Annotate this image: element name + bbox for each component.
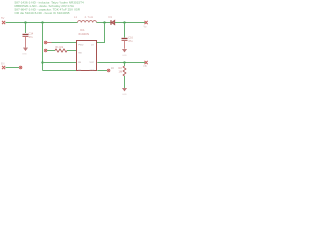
wire row 43: [47, 42, 51, 44]
wire to R1: [47, 50, 55, 52]
wire EN stub left: [6, 67, 20, 69]
resistor R2: [123, 66, 126, 76]
svg-text:47u: 47u: [128, 40, 133, 43]
capacitor C14: [23, 35, 29, 37]
svg-text:GND: GND: [122, 55, 127, 57]
diode D1: [111, 20, 115, 25]
wire SW down: [97, 23, 105, 43]
pin flag P3: [107, 69, 110, 72]
wire VCC drop to IC rows: [42, 23, 44, 71]
net flag EN left: [2, 66, 5, 69]
pin names right col: [90, 44, 95, 72]
svg-text:EN: EN: [111, 68, 115, 70]
svg-text:OR die 51040-5-ND - boost IC 6: OR die 51040-5-ND - boost IC 61040N5: [15, 11, 70, 15]
wire EN stub right: [97, 70, 107, 72]
wire row 70 left: [43, 70, 77, 72]
svg-text:R2: R2: [119, 66, 123, 70]
pin flag P4: [19, 66, 22, 69]
net flag FB: [145, 61, 148, 64]
op IC1 box: [77, 41, 97, 71]
ground G1: [24, 48, 28, 50]
svg-text:GND: GND: [22, 54, 27, 56]
wire coil to diode: [97, 22, 111, 24]
net flag VOUT: [145, 21, 148, 24]
svg-text:FB: FB: [144, 65, 147, 68]
svg-text:47u: 47u: [29, 36, 34, 39]
wire R1 to IC: [67, 50, 76, 52]
svg-text:R1 10k: R1 10k: [56, 46, 64, 49]
inductor L1: [78, 21, 97, 23]
svg-text:1M: 1M: [119, 69, 123, 73]
svg-text:D1: D1: [109, 15, 113, 19]
junction SW node: [103, 21, 105, 23]
ground G2: [123, 49, 127, 51]
svg-text:EN: EN: [1, 62, 5, 65]
wire divider top: [124, 63, 126, 67]
junction A: [24, 21, 26, 23]
pin flag P1: [44, 41, 47, 44]
capacitor C16: [122, 39, 128, 41]
wire FB row right: [97, 62, 145, 64]
junction B: [41, 21, 43, 23]
svg-text:EN: EN: [78, 70, 81, 72]
svg-text:61040N: 61040N: [79, 32, 90, 36]
net flag VIN: [2, 21, 5, 24]
wire C16 drop: [124, 23, 126, 38]
wire diode to VOUT: [115, 22, 145, 24]
svg-text:L1: L1: [74, 15, 77, 19]
wire divider bottom: [124, 76, 126, 88]
svg-text:PWD: PWD: [78, 44, 84, 46]
svg-text:GND: GND: [122, 94, 127, 95]
pin flag P2: [44, 49, 47, 52]
svg-text:5V: 5V: [1, 16, 5, 20]
svg-text:VCC: VCC: [90, 62, 95, 64]
pin names left col: [78, 44, 84, 72]
svg-text:GND: GND: [90, 70, 95, 72]
svg-text:4.7uH: 4.7uH: [85, 15, 94, 19]
junction OUT node: [123, 21, 125, 23]
wire C14 drop: [25, 23, 27, 34]
junction C: [41, 61, 43, 63]
resistor R1: [55, 49, 67, 52]
wire main top: [6, 22, 78, 24]
wire row 62 left: [43, 62, 77, 64]
junction D: [123, 61, 125, 63]
ground G3: [123, 88, 127, 90]
